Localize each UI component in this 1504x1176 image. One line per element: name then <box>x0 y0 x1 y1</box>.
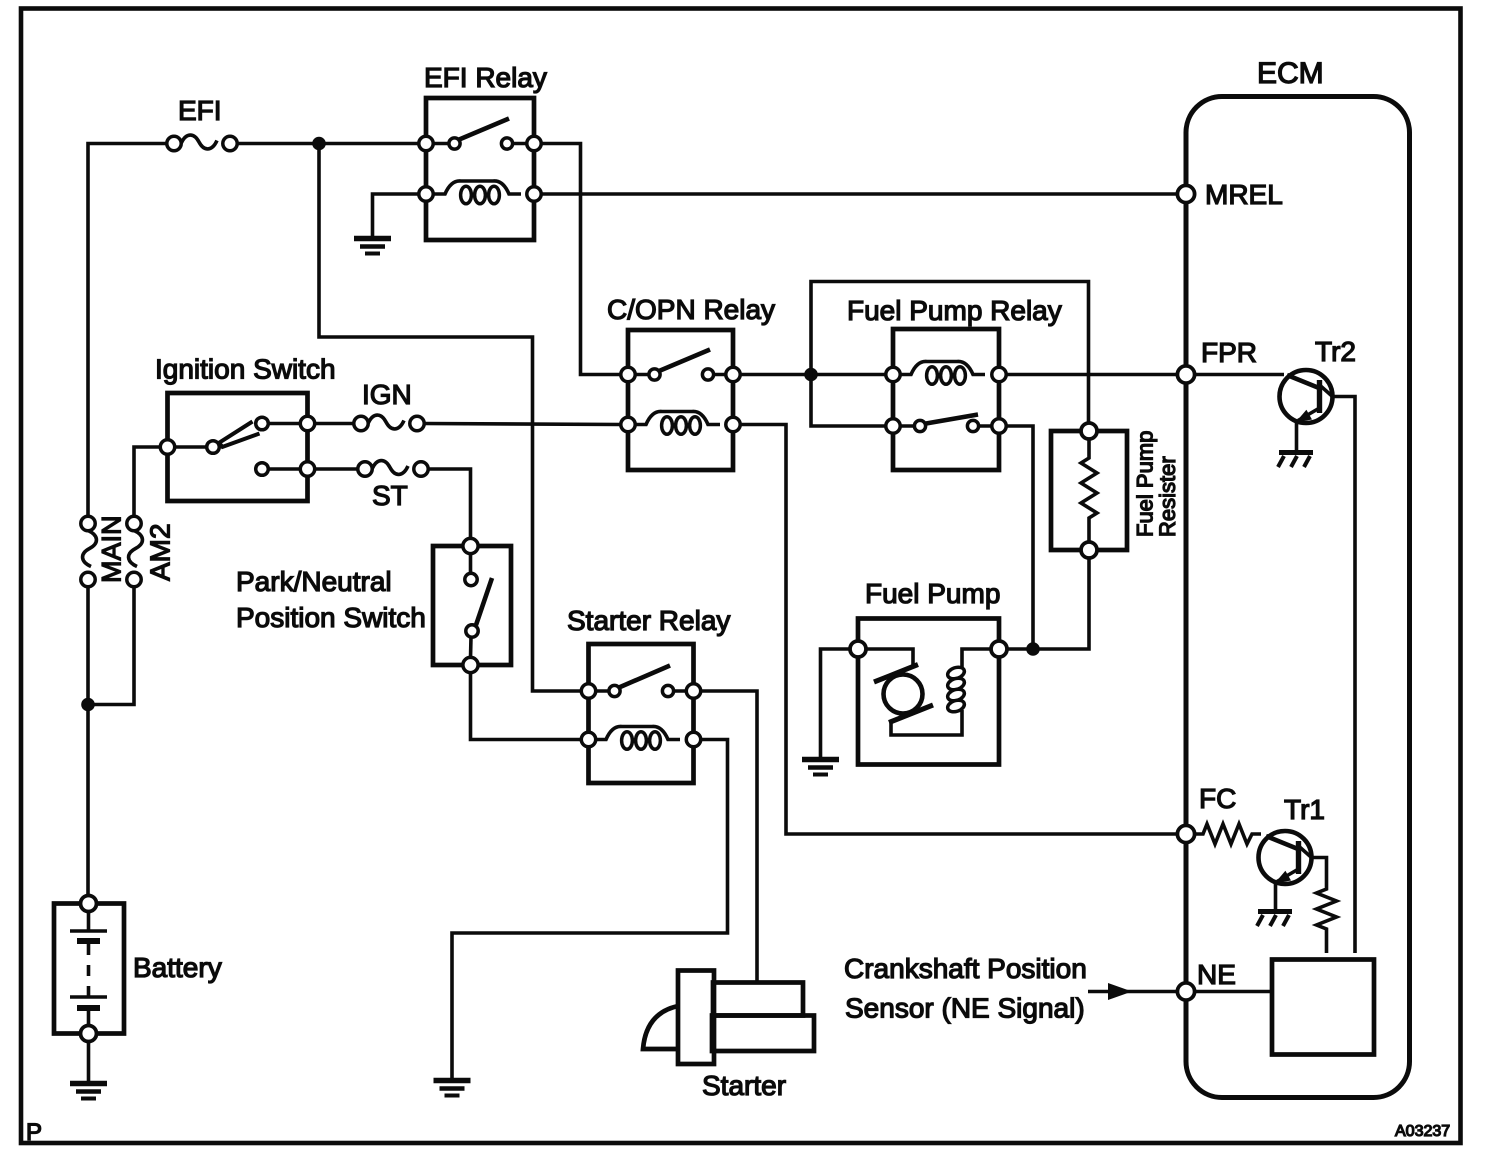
label Park/Neutral Position Switch <box>236 566 426 633</box>
wire junction down to starter relay switch <box>319 144 582 692</box>
svg-text:Fuel Pump: Fuel Pump <box>1133 431 1158 537</box>
label C/OPN Relay <box>607 294 775 325</box>
wire battery-B+ riser and EFI feed <box>88 144 181 517</box>
wire NE to signal box <box>1195 990 1272 994</box>
svg-text:Battery: Battery <box>133 952 222 983</box>
ground fuel pump <box>802 760 839 775</box>
svg-text:FC: FC <box>1199 783 1236 814</box>
label FC <box>1199 783 1236 814</box>
resistor FC-Tr1 <box>1195 824 1261 844</box>
svg-text:C/OPN Relay: C/OPN Relay <box>607 294 775 325</box>
label Starter <box>702 1070 786 1101</box>
wire EFI relay coil to MREL <box>541 192 1177 196</box>
svg-text:FPR: FPR <box>1201 337 1257 368</box>
svg-text:ST: ST <box>372 480 408 511</box>
svg-text:Fuel Pump Relay: Fuel Pump Relay <box>847 295 1062 326</box>
op ECM enclosure <box>1186 97 1410 1098</box>
svg-text:Park/Neutral: Park/Neutral <box>236 566 392 597</box>
resistor Tr1 collector <box>1317 886 1337 953</box>
wire fuel pump relay switch to fuel pump junction <box>1006 426 1033 649</box>
wire battery to ground <box>87 1041 91 1081</box>
fuse AM2 <box>127 516 143 586</box>
node FPR terminal <box>1177 366 1194 383</box>
wire fuel pump relay frame lower <box>811 375 886 427</box>
relay Fuel Pump Relay <box>886 329 1006 470</box>
fuse IGN <box>354 415 424 431</box>
wire C/OPN coil to FC terminal <box>740 425 1177 835</box>
wire FPR to Tr2 base <box>1195 373 1284 377</box>
node NE terminal <box>1177 983 1194 1000</box>
motor Fuel Pump <box>850 619 1007 765</box>
label EFI Relay <box>424 62 547 93</box>
label Tr1 <box>1284 794 1325 825</box>
wire resister to fuel pump junction <box>1004 558 1089 649</box>
label Fuel Pump <box>865 578 1000 609</box>
wire fuel pump to ground <box>821 649 851 757</box>
fuse EFI <box>167 135 237 151</box>
transistor Tr2 <box>1280 370 1356 953</box>
label NE <box>1197 959 1236 990</box>
svg-text:MAIN: MAIN <box>97 516 127 584</box>
op NE signal box <box>1272 960 1374 1055</box>
node junction battery feed <box>81 698 95 712</box>
wire ST fuse to park/neutral switch <box>428 469 471 538</box>
svg-text:Ignition Switch: Ignition Switch <box>155 354 336 385</box>
label ECM <box>1257 57 1324 90</box>
ground Tr1 <box>1257 912 1292 927</box>
wire fuel pump relay frame <box>811 282 1089 425</box>
svg-text:EFI: EFI <box>178 95 222 126</box>
label MREL <box>1205 179 1283 210</box>
battery <box>54 896 124 1042</box>
node junction at EFI feed <box>312 137 326 151</box>
label Battery <box>133 952 222 983</box>
wire C/OPN switch to fuel pump relay coil and FPR <box>740 373 886 377</box>
label ST <box>372 480 408 511</box>
switch Ignition Switch <box>160 393 314 501</box>
label Tr2 <box>1315 336 1356 367</box>
svg-text:MREL: MREL <box>1205 179 1283 210</box>
ground Tr2 <box>1278 453 1313 468</box>
resistor Fuel Pump Resister <box>1051 423 1127 558</box>
node junction fuel pump feed <box>1026 642 1040 656</box>
svg-text:A03237: A03237 <box>1395 1123 1450 1140</box>
label IGN <box>362 379 412 410</box>
node junction fuel pump relay frame <box>804 368 818 382</box>
node MREL terminal <box>1177 185 1194 202</box>
svg-text:Tr1: Tr1 <box>1284 794 1325 825</box>
ground battery <box>70 1084 107 1099</box>
svg-text:Resister: Resister <box>1155 456 1180 537</box>
svg-text:Tr2: Tr2 <box>1315 336 1356 367</box>
relay Starter Relay <box>581 644 700 783</box>
svg-text:NE: NE <box>1197 959 1236 990</box>
wire EFI relay switch to C/OPN relay <box>541 144 621 375</box>
wire IGN fuse to C/OPN coil <box>424 424 621 425</box>
wire starter relay switch to starter <box>701 691 757 984</box>
relay EFI Relay <box>419 98 541 240</box>
wire AM2 to battery junction <box>88 587 134 705</box>
wire EFI fuse to EFI relay <box>237 142 421 146</box>
label P <box>26 1119 42 1146</box>
fuse ST <box>358 461 428 477</box>
fuse MAIN <box>81 516 97 586</box>
label Ignition Switch <box>155 354 336 385</box>
transistor Tr1 <box>1259 831 1327 909</box>
svg-text:AM2: AM2 <box>145 523 176 581</box>
label MAIN (rotated) <box>97 516 127 584</box>
svg-text:Starter: Starter <box>702 1070 786 1101</box>
wire crankshaft sensor arrow to NE <box>1088 983 1177 1000</box>
starter Starter <box>643 971 814 1065</box>
svg-text:ECM: ECM <box>1257 57 1324 90</box>
svg-text:P: P <box>26 1119 42 1146</box>
wire starter relay coil to ground <box>452 740 728 1079</box>
label Starter Relay <box>567 605 730 636</box>
wire AM2 branch from ignition switch <box>134 447 161 516</box>
label EFI <box>178 95 222 126</box>
wire ignition to ST fuse <box>315 467 358 471</box>
wire park/neutral to starter relay coil <box>471 673 583 740</box>
svg-text:Position Switch: Position Switch <box>236 602 426 633</box>
relay C/OPN Relay <box>621 330 740 470</box>
svg-text:Starter Relay: Starter Relay <box>567 605 730 636</box>
svg-text:Crankshaft Position: Crankshaft Position <box>844 953 1087 984</box>
ground starter relay <box>434 1081 471 1096</box>
wire MAIN to battery <box>86 587 90 896</box>
wire fuel pump relay coil to FPR terminal <box>1006 373 1176 377</box>
ground EFI relay <box>354 239 391 254</box>
svg-text:EFI Relay: EFI Relay <box>424 62 547 93</box>
label Fuel Pump Relay <box>847 295 1062 326</box>
label Fuel Pump Resister (rotated) <box>1133 431 1181 537</box>
label FPR <box>1201 337 1257 368</box>
svg-text:IGN: IGN <box>362 379 412 410</box>
wire EFI relay coil to ground <box>373 194 420 236</box>
label Crankshaft Position Sensor (NE Signal) <box>844 953 1087 1024</box>
wire ignition to IGN fuse <box>315 422 354 426</box>
switch Park/Neutral Position Switch <box>433 538 511 672</box>
label AM2 (rotated) <box>145 523 176 581</box>
svg-text:Fuel Pump: Fuel Pump <box>865 578 1000 609</box>
svg-text:Sensor (NE Signal): Sensor (NE Signal) <box>845 993 1085 1024</box>
node FC terminal <box>1177 825 1194 842</box>
label A03237 <box>1395 1123 1450 1140</box>
